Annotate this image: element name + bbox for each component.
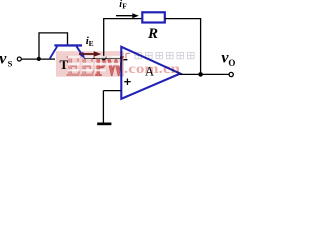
svg-text:R: R bbox=[147, 26, 158, 42]
op-amp plus sign bbox=[124, 79, 131, 86]
watermark grey CJK text row bbox=[135, 52, 194, 58]
label iE bbox=[86, 35, 94, 48]
current arrow iE bbox=[79, 51, 101, 56]
label vO bbox=[221, 50, 235, 69]
svg-text:E: E bbox=[89, 39, 94, 48]
transistor T emitter leg (right) with arrow bbox=[77, 46, 85, 58]
wire base loop bbox=[39, 33, 68, 59]
svg-text:PW: PW bbox=[95, 51, 124, 83]
watermark white slits bbox=[68, 56, 120, 72]
node junction dot B (inverting input node) bbox=[102, 56, 106, 60]
op-amp U triangle bbox=[121, 47, 180, 99]
wire output bbox=[180, 73, 230, 75]
wire to ground bbox=[102, 91, 104, 124]
node junction dot A (input/base tie) bbox=[37, 57, 41, 61]
wire emitter to op-amp inverting input bbox=[84, 57, 121, 59]
current arrow iF bbox=[116, 13, 139, 18]
wire input to transistor left leg bbox=[21, 58, 55, 60]
wire top right segment bbox=[165, 18, 201, 20]
transistor T base bar bbox=[54, 44, 82, 46]
wire feedback vertical left bbox=[103, 19, 105, 59]
output terminal vO circle bbox=[229, 72, 233, 76]
wire feedback vertical right bbox=[200, 19, 202, 75]
svg-text:.com.cn: .com.cn bbox=[124, 61, 181, 76]
label iF bbox=[119, 0, 127, 10]
resistor R bbox=[142, 12, 165, 22]
svg-text:F: F bbox=[122, 2, 127, 11]
current arrow iE redrawn over watermark bbox=[79, 51, 101, 56]
wire non-inverting input bbox=[103, 90, 120, 92]
svg-text:S: S bbox=[8, 58, 13, 68]
input terminal vS circle bbox=[17, 57, 21, 61]
watermark faint red tick bbox=[126, 53, 130, 59]
svg-text:O: O bbox=[228, 58, 235, 68]
wire top left segment bbox=[103, 18, 142, 20]
svg-text:v: v bbox=[0, 50, 7, 67]
label vS bbox=[0, 50, 13, 68]
node junction dot C (output node) bbox=[198, 72, 203, 77]
transistor T collector leg (left) bbox=[50, 46, 57, 58]
watermark pink box bbox=[56, 51, 124, 76]
transistor T emitter leg redrawn over watermark bbox=[77, 46, 85, 58]
ground bbox=[97, 123, 111, 126]
op-amp minus sign bbox=[123, 59, 127, 60]
